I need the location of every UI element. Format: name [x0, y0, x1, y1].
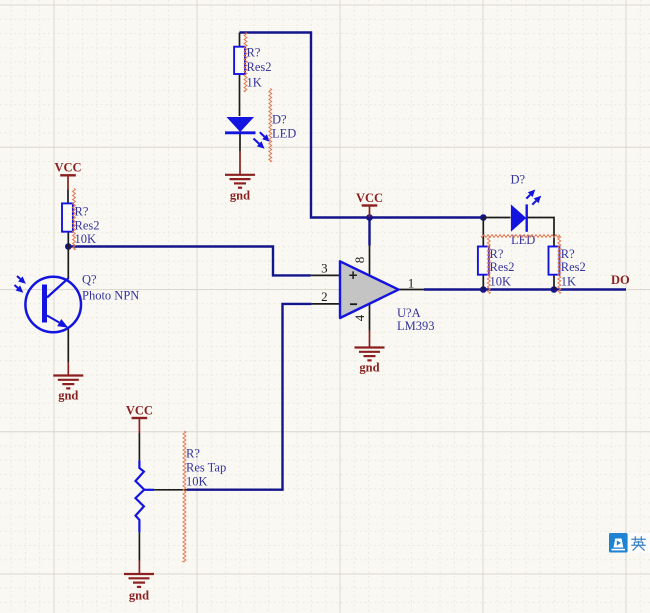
svg-text:10K: 10K	[75, 232, 97, 246]
svg-text:VCC: VCC	[356, 191, 383, 205]
resistor R4 (Res2 1K) body	[549, 247, 560, 275]
svg-text:gnd: gnd	[359, 361, 379, 375]
svg-text:VCC: VCC	[54, 161, 81, 175]
pin: D2 anode	[483, 217, 510, 219]
junction node top of R3	[480, 214, 487, 221]
pin: R4 bottom	[553, 275, 555, 290]
Q1 emitter stroke with arrow	[47, 316, 59, 323]
junction node bottom of R4	[551, 286, 558, 293]
svg-text:Res Tap: Res Tap	[186, 461, 226, 475]
junction node bottom of R3	[480, 286, 487, 293]
svg-text:Q?: Q?	[82, 273, 97, 287]
resistor R2 (Res2 10K) body	[62, 203, 73, 231]
svg-text:D?: D?	[511, 173, 526, 187]
potentiometer RV1 (Res Tap) zigzag	[136, 460, 145, 532]
wire from R1 top to net loop down to comparator VCC rail	[240, 33, 484, 218]
ground under Q1	[67, 362, 69, 375]
ground under RV1	[138, 561, 140, 574]
svg-text:Res2: Res2	[561, 260, 586, 274]
svg-text:R?: R?	[247, 46, 261, 60]
input-method indicator overlay (not part of circuit)	[609, 533, 650, 553]
compile-warning squiggle beside R3	[487, 236, 490, 294]
svg-text:gnd: gnd	[129, 589, 149, 603]
LED D2 cathode bar	[526, 204, 528, 231]
output wire from U1 pin 1 to DO	[424, 288, 626, 290]
svg-text:Res2: Res2	[247, 60, 272, 74]
svg-text:LM393: LM393	[397, 319, 435, 333]
svg-text:D?: D?	[272, 113, 287, 127]
ground under D1	[239, 151, 241, 175]
compile-warning squiggle beside R1	[244, 33, 247, 93]
svg-text:Res2: Res2	[490, 260, 515, 274]
compile-warning squiggle beside R4	[558, 236, 561, 294]
svg-text:gnd: gnd	[58, 389, 78, 403]
wire from RV1 tap to pin 2 of U1	[187, 304, 312, 490]
pin 3 of U1	[311, 274, 340, 276]
pin: VCC to R2 top	[67, 190, 69, 204]
svg-text:VCC: VCC	[126, 404, 153, 418]
pin: VCC to RV1 top	[138, 433, 140, 460]
wire from R2/Q1 node to pin 3 of U1	[68, 247, 310, 276]
resistor R3 (Res2 10K) body	[478, 247, 489, 275]
pin: RV1 wiper tap	[154, 489, 187, 491]
svg-text:4: 4	[352, 314, 367, 321]
svg-text:Res2: Res2	[75, 219, 100, 233]
U1 plus marker	[349, 271, 357, 279]
transistor Q1 photo NPN circle	[25, 277, 81, 333]
svg-text:gnd: gnd	[230, 188, 250, 202]
RV1 tap stub	[144, 489, 154, 491]
Q1 base bar	[42, 285, 47, 323]
pin 1 of U1 (output)	[399, 289, 425, 291]
pin: RV1 bottom	[138, 532, 140, 560]
svg-text:R?: R?	[561, 247, 575, 261]
wire from VCC junction down to pin 8	[368, 218, 370, 246]
pin: R3 top	[482, 218, 484, 247]
LED D2 emission arrows	[526, 195, 530, 199]
LED D2 triangle	[511, 204, 526, 231]
resistor R1 (Res2 1K) body	[234, 47, 245, 74]
svg-text:LED: LED	[272, 127, 296, 141]
U1 minus marker	[350, 303, 357, 305]
pin: Q1 emitter down	[67, 328, 69, 363]
svg-text:1K: 1K	[561, 275, 576, 289]
svg-text:R?: R?	[186, 447, 200, 461]
comparator U1 LM393 triangle	[340, 261, 399, 318]
pin: D1 cathode down	[239, 133, 241, 151]
pin 2 of U1	[312, 303, 340, 305]
LED D1 triangle	[227, 117, 255, 132]
pin: R1 bottom to D1 anode	[239, 74, 241, 116]
pin 8 of U1	[369, 246, 371, 277]
svg-text:DO: DO	[611, 273, 630, 287]
compile-warning squiggle beside RV1	[183, 431, 186, 562]
junction node at VCC / pin 8	[366, 214, 373, 221]
svg-text:R?: R?	[75, 205, 89, 219]
pin: R1 top	[239, 33, 241, 47]
pin: R2 bottom / Q1 collector	[67, 232, 69, 279]
LED D1 emission arrows	[260, 132, 265, 137]
svg-text:R?: R?	[490, 247, 504, 261]
svg-text:10K: 10K	[186, 475, 208, 489]
Q1 collector stroke	[47, 278, 69, 298]
pin 4 of U1	[369, 303, 371, 331]
ground under U1	[369, 331, 371, 348]
svg-text:8: 8	[352, 257, 367, 264]
compile-warning squiggle above LED D2	[481, 235, 560, 238]
junction node at R2/Q1 collector	[65, 243, 72, 250]
LED D1 cathode bar	[225, 131, 256, 134]
svg-text:U?A: U?A	[397, 306, 421, 320]
pin: D2 cathode to R4 top	[528, 218, 555, 247]
pin: R3 bottom	[482, 275, 484, 290]
compile-warning squiggle beside R2	[73, 189, 76, 251]
svg-text:10K: 10K	[490, 275, 512, 289]
compile-warning squiggle beside D1 labels	[269, 89, 272, 163]
svg-text:1: 1	[408, 276, 415, 291]
svg-text:Photo NPN: Photo NPN	[82, 288, 139, 302]
svg-text:2: 2	[321, 289, 328, 304]
svg-text:3: 3	[321, 260, 328, 275]
Q1 photo arrows	[17, 276, 20, 279]
svg-text:1K: 1K	[247, 76, 262, 90]
